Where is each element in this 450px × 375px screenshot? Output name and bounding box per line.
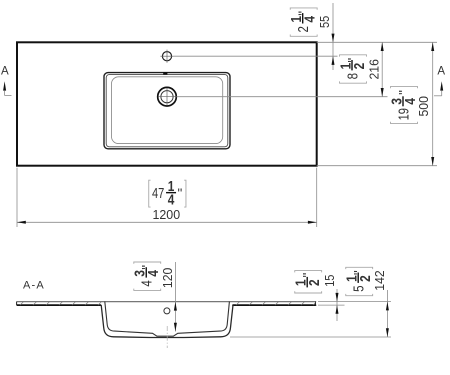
svg-text:47: 47 — [152, 186, 164, 202]
dimension line 120 — [174, 262, 176, 332]
dimension line 142 — [386, 290, 388, 337]
dimension line 55 — [332, 3, 334, 70]
arrow 15 top — [336, 293, 339, 302]
svg-text:8: 8 — [345, 73, 361, 79]
section: bowl outer wall — [101, 305, 233, 337]
extension line bottom edge — [317, 165, 437, 167]
overflow slot — [163, 72, 167, 75]
dim text [4 3/4"] — [133, 262, 163, 290]
svg-text:216: 216 — [367, 59, 382, 79]
svg-text:": " — [296, 11, 311, 16]
svg-text:4: 4 — [146, 270, 162, 277]
section: slab right end — [315, 302, 317, 306]
section: slab left end — [16, 302, 18, 306]
extension line 1200 right — [316, 168, 318, 227]
section arrow right — [440, 81, 443, 90]
section: hatching left slab — [20, 302, 101, 306]
section: bowl inner wall with drain recess — [105, 302, 230, 337]
svg-text:": " — [345, 58, 360, 63]
arrow 1200 left — [17, 221, 26, 224]
arrow 120 bottom — [174, 323, 177, 332]
svg-text:A-A: A-A — [23, 280, 45, 292]
extension line top edge — [317, 41, 437, 43]
svg-text:2: 2 — [352, 63, 368, 70]
dimension line 216 — [381, 42, 383, 96]
section: slab bottom right — [233, 304, 316, 306]
svg-text:142: 142 — [372, 270, 387, 290]
leader line drain — [176, 96, 387, 98]
svg-text:": " — [352, 270, 367, 275]
extension line 1200 left — [16, 168, 18, 227]
arrow 142 bottom — [386, 328, 389, 337]
svg-text:2: 2 — [307, 279, 323, 286]
extension line section top (15/142) — [318, 301, 391, 303]
svg-text:A: A — [437, 66, 445, 78]
countertop outline (top view) — [17, 42, 317, 165]
drain outer circle — [158, 87, 177, 106]
arrow 216 top — [381, 42, 384, 51]
svg-text:2: 2 — [358, 275, 374, 282]
arrow 55 top — [332, 34, 335, 43]
svg-text:120: 120 — [160, 268, 175, 288]
svg-text:A: A — [1, 66, 9, 78]
svg-text:15: 15 — [322, 275, 337, 287]
drain crosshair — [158, 96, 176, 98]
arrow 120 top — [174, 302, 177, 311]
svg-text:5: 5 — [352, 286, 368, 292]
svg-text:4: 4 — [140, 280, 156, 286]
arrow 1200 right — [308, 221, 317, 224]
section: counter top surface line — [17, 301, 317, 303]
dim text [2 1/4"] — [289, 8, 319, 36]
svg-text:19: 19 — [396, 108, 412, 120]
section: faucet hole — [164, 308, 170, 314]
svg-text:55: 55 — [317, 16, 332, 28]
svg-text:": " — [140, 265, 155, 270]
dim text [5 1/2"] — [345, 267, 375, 295]
arrow 142 top — [386, 302, 389, 311]
arrow 55 bottom — [332, 56, 335, 65]
extension line 15 bottom — [318, 304, 345, 306]
svg-text:": " — [396, 90, 411, 95]
faucet hole — [162, 52, 171, 61]
section: drain centerline — [166, 326, 168, 348]
arrow 500 top — [431, 42, 434, 51]
extension line 142 bottom — [230, 336, 391, 338]
drain inner circle — [161, 91, 173, 103]
section: hatching right slab — [236, 302, 316, 306]
dimension line 1200 — [17, 221, 317, 223]
dim text [8 1/2"] — [338, 55, 368, 83]
arrow 216 bottom — [381, 88, 384, 97]
svg-text:2: 2 — [296, 26, 312, 32]
section arrow left — [3, 81, 6, 90]
section: slab bottom left — [17, 304, 102, 306]
basin rim inner edge — [106, 75, 228, 147]
leader line faucet hole — [174, 55, 338, 57]
dimension line 500 — [432, 42, 434, 165]
dimension line 15 — [336, 289, 338, 321]
svg-text:4: 4 — [303, 16, 319, 23]
svg-text:": " — [301, 273, 316, 278]
dim text [19 3/4"] — [389, 86, 419, 123]
basin rim outer edge — [104, 73, 230, 149]
arrow 500 bottom — [431, 157, 434, 166]
dim text [1/2"] — [294, 271, 324, 293]
svg-text:4: 4 — [403, 98, 419, 105]
svg-text:1200: 1200 — [153, 207, 181, 222]
svg-text:": " — [178, 186, 183, 201]
dim text [47 1/4"] — [149, 179, 186, 209]
basin bowl bottom contour — [112, 77, 223, 144]
faucet hole crosshair — [160, 55, 173, 57]
arrow 15 bottom — [336, 305, 339, 314]
